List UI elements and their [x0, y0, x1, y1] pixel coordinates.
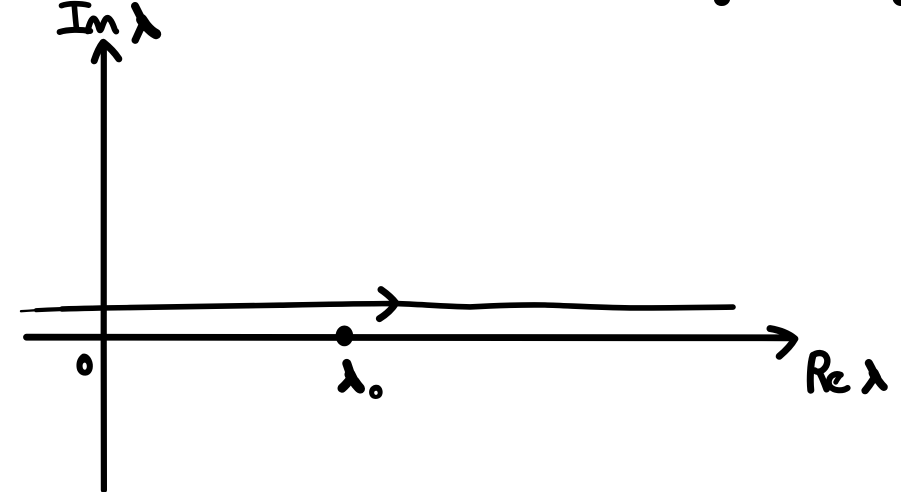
- stray ink blob top right corner (cut-off writing): [893, 0, 901, 6]
- wire: vertical Im axis shaft: [101, 45, 107, 490]
- label lambda0: lambda glyph: [342, 363, 360, 389]
- label lambda0: subscript 0: [369, 385, 383, 399]
- label Im: letter I: [60, 4, 91, 32]
- point lambda0 dot: [336, 326, 354, 347]
- label Re: letter R: [810, 353, 827, 390]
- vertical axis arrowhead: [94, 42, 119, 61]
- horizontal axis arrowhead: [770, 329, 795, 357]
- label Im: lambda glyph: [135, 6, 156, 40]
- contour arrowhead (mid): [379, 290, 395, 319]
- label 0 at origin: [76, 354, 92, 376]
- wire: horizontal Re axis shaft: [27, 334, 791, 341]
- label Re: letter e: [829, 374, 848, 390]
- label Re: lambda glyph: [865, 363, 884, 391]
- contour line above real axis: [21, 310, 44, 311]
- label Im: letter m: [88, 18, 117, 32]
- stray ink blob top middle (cut-off writing): [714, 0, 730, 6]
